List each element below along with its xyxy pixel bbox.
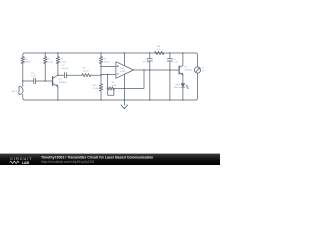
- svg-text:2N3904: 2N3904: [184, 70, 192, 72]
- wire R3 collector branch: [57, 53, 59, 75]
- svg-text:650nm: 650nm: [174, 87, 180, 89]
- wire bottom ground rail: [25, 99, 196, 101]
- svg-text:1 kΩ: 1 kΩ: [112, 85, 117, 87]
- node R7 right: [113, 88, 115, 90]
- wire op-amp V- pin to ground: [123, 74, 125, 105]
- wire noninverting input: [101, 65, 116, 67]
- resistor R5: [82, 74, 91, 77]
- svg-text:LAB: LAB: [22, 161, 30, 165]
- transistor Q2: [178, 66, 180, 74]
- capacitor C5: [167, 59, 172, 61]
- transistor Q1: [52, 77, 54, 86]
- node ground rail: [124, 99, 126, 101]
- node R3 rail: [57, 52, 59, 54]
- node LED ground: [182, 99, 184, 101]
- resistor R7: [107, 87, 114, 90]
- wire base input W1: [23, 80, 53, 82]
- node C5 ground: [169, 99, 171, 101]
- svg-text:470 µF: 470 µF: [143, 62, 151, 64]
- wire Q2 collector to rail: [182, 53, 184, 65]
- node R4 rail: [100, 52, 102, 54]
- svg-text:10 kΩ: 10 kΩ: [60, 62, 66, 64]
- svg-text:10 kΩ: 10 kΩ: [93, 88, 99, 90]
- node noninverting tee: [100, 66, 102, 68]
- svg-text:10 kΩ: 10 kΩ: [104, 62, 110, 64]
- svg-text:TL082: TL082: [120, 71, 127, 73]
- LED LED1: [181, 84, 185, 87]
- wire top power rail: [25, 52, 196, 54]
- svg-text:1 µF: 1 µF: [31, 75, 36, 77]
- wire op-amp output W3: [134, 69, 180, 71]
- node V+ rail: [124, 52, 126, 54]
- svg-text:6.8kΩ: 6.8kΩ: [25, 62, 31, 64]
- svg-text:680 nF: 680 nF: [62, 68, 69, 70]
- wire Q2 emitter to LED: [182, 75, 184, 84]
- wire C5 branch: [169, 53, 171, 100]
- capacitor C1: [34, 78, 36, 83]
- svg-text:2N3904: 2N3904: [59, 82, 67, 84]
- capacitor C4: [147, 59, 152, 61]
- node feedback output: [143, 69, 145, 71]
- node V- feedback crossing: [124, 88, 126, 90]
- node C5 rail: [169, 52, 171, 54]
- node Q1 collector: [57, 74, 59, 76]
- wire op-amp V+ pin: [123, 53, 125, 66]
- node mic/R1/C1: [22, 80, 24, 82]
- resistor R1: [21, 57, 24, 64]
- resistor R3: [56, 57, 59, 64]
- wire inverting feedback tap: [107, 74, 109, 88]
- node C4 W3: [149, 69, 151, 71]
- ground: [121, 105, 128, 109]
- svg-text:10 kΩ: 10 kΩ: [83, 71, 89, 73]
- wire C4 branch: [149, 53, 151, 100]
- node R2 base: [44, 80, 46, 82]
- node C5 W3: [169, 69, 171, 71]
- resistor R6: [99, 84, 102, 91]
- source V1: [194, 67, 200, 73]
- wire R7 parallel loop: [108, 89, 114, 96]
- node feedback W2: [107, 74, 109, 76]
- svg-text:1 µF: 1 µF: [173, 62, 178, 64]
- svg-text:9 V: 9 V: [202, 70, 206, 72]
- bottom attribution bar: [0, 154, 220, 165]
- svg-text:http://circuitlab.com/c6y45zp2: http://circuitlab.com/c6y45zp2pZJ5f: [41, 160, 94, 164]
- wire Q1 emitter to ground rail: [57, 86, 59, 100]
- logo CircuitLab: [10, 157, 33, 165]
- op-amp OA1: [116, 62, 134, 79]
- microphone MIC1: [19, 86, 23, 94]
- node R2 rail: [44, 52, 46, 54]
- resistor R4: [99, 57, 102, 64]
- wire left vertical from rail to mic node: [23, 53, 25, 81]
- wire signal W2: [58, 73, 116, 76]
- capacitor C3: [65, 73, 67, 78]
- wire R2 branch: [44, 53, 46, 81]
- node R6 rail: [100, 99, 102, 101]
- svg-text:LED1: LED1: [175, 84, 181, 86]
- wire mic branch: [23, 81, 25, 100]
- wire right rail to source V1: [196, 53, 198, 100]
- node Q2 collector rail: [182, 52, 184, 54]
- resistor R8: [155, 51, 165, 54]
- svg-text:4 Ω: 4 Ω: [157, 49, 161, 51]
- wire bias divider branch: [100, 53, 102, 100]
- wire LED to ground rail: [182, 87, 184, 100]
- node C4 rail: [149, 52, 151, 54]
- wire feedback from output: [114, 70, 144, 88]
- node bias W2: [100, 74, 102, 76]
- node Q1 emitter rail: [57, 99, 59, 101]
- node C4 ground: [149, 99, 151, 101]
- svg-text:10 kΩ: 10 kΩ: [47, 62, 53, 64]
- resistor R2: [44, 57, 47, 64]
